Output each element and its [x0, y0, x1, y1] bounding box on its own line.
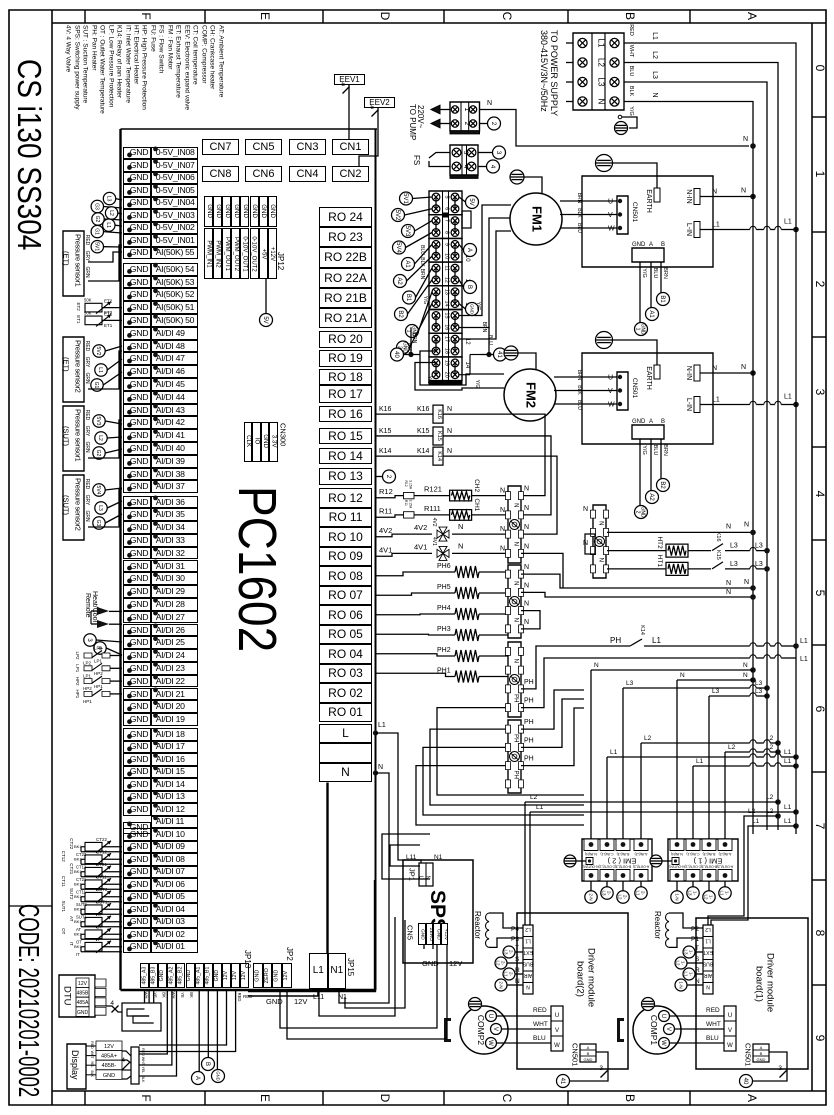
bus wires L1 L2 L3 N from power supply to right edge and down: [624, 43, 796, 834]
pin dots row 0-5V_IN05: [127, 190, 132, 195]
COMP1 earth symbol: [642, 998, 655, 1011]
fan motor FM1 circle: [510, 193, 562, 245]
pressure sensor box Pressure sensor2 SUT: [63, 475, 84, 540]
thermistor CT22: [85, 842, 102, 851]
Display mating connector box with colour labels: [131, 1047, 139, 1084]
remote input arrow: [97, 620, 109, 628]
EMI(1) output node circles 1-N 1-L3 1-L2 1-L1: [676, 881, 678, 891]
pin dots row AI/DI 05: [127, 897, 132, 902]
EMI(1) input pin N-IN(N): [670, 839, 684, 851]
pin dots row AI/DI 18: [127, 734, 132, 739]
pin dots row AI/DI 41: [127, 435, 132, 440]
pin dots row AI/DI 15: [127, 772, 132, 777]
EMI(1) output pin A-OUT(L2): [718, 870, 732, 882]
pin dots row AI/DI 09: [127, 847, 132, 852]
analog input node circles L3 G3 L2 G2 L1 G1 5V1 near 0-5V inputs: [103, 192, 115, 204]
pin dots row 0-5V_IN02: [127, 228, 132, 233]
pin dots row 0-5V_IN03: [127, 215, 132, 220]
FM2 output node circles B2 A2 GND2: [657, 479, 670, 492]
fan motor FM2 circle: [504, 369, 556, 421]
strip to FM1 motor wires: [459, 205, 511, 316]
terminal block TO PUMP: [416, 105, 424, 128]
pin dots row AI(50K) 51: [127, 307, 132, 312]
pressure sensor box Pressure sensor1 SUT: [63, 406, 84, 471]
electronic expansion valve EEV1: [334, 74, 365, 85]
heater resistor R111 (boxed): [450, 510, 472, 521]
pin dots row 0-5V_IN08: [127, 153, 132, 158]
pin dots row AI/DI 01: [127, 947, 132, 952]
wire L output of PC1602 to SPS JP1 (L11): [373, 730, 378, 735]
EMI(1) output pin B-OUT(L3): [702, 870, 716, 882]
four-way valve coil 4V1: [437, 546, 449, 560]
thermistor OT: [85, 930, 102, 939]
heater HT1 boxed resistor with K15 contact to L3 bus: [607, 568, 666, 570]
FM2 motor earth symbol: [504, 346, 518, 360]
thermistor CT21: [85, 867, 102, 876]
power supply earth pigtail: [618, 115, 622, 119]
EMI filter EMI(1) box: [668, 839, 738, 881]
relay coil box K15: [433, 427, 443, 445]
pin dots row AI/DI 47: [127, 359, 132, 364]
four-way valve coil 4V2: [437, 527, 449, 541]
pin dots row AI/DI 28: [127, 604, 132, 609]
driver board(1) CN501 connector: [753, 1044, 769, 1062]
node circles 3 and 4 (flow switch nets): [84, 634, 96, 646]
thermistor CT11: [85, 880, 102, 889]
right node circles 5V A B GND: [466, 196, 479, 209]
FM2 CN501 connector: [617, 372, 628, 410]
remote heat/cool input arrows: [84, 593, 91, 618]
Pressure sensor2 SUT node circles: [93, 484, 105, 496]
pin dots row AI/DI 13: [127, 797, 132, 802]
left node circles 5V1 5V2 5V3 5V4 A1 A2 B1 B2 GND1 GND2: [400, 192, 413, 205]
driver board(2) input node circles from EMI: [503, 946, 515, 958]
relay coil box K14: [433, 447, 443, 465]
arrows to pump: [431, 105, 440, 114]
node 40 circle and junction: [391, 348, 404, 361]
DTU mating connector box and stepped wires: [122, 1003, 161, 1031]
pan heater PH4 feed wire and resistor: [376, 613, 456, 616]
pin dots row AI/DI 32: [127, 553, 132, 558]
Pressure sensor2 ET node circles: [93, 345, 105, 357]
pin dots row AI/DI 25: [127, 643, 132, 648]
pin dots row AI(50K) 54: [127, 269, 132, 274]
connector JP13: [140, 963, 149, 988]
FM2 L-IN pin and wire to L1 bus: [694, 397, 700, 413]
electronic expansion valve EEV2: [364, 97, 395, 108]
EMI(2) input pin A-IN(L2): [634, 839, 648, 851]
load terminal strip 3 (PH2 PH1 returns + PH out): [508, 642, 521, 717]
driver board(1) reactor coil: [666, 913, 669, 947]
pin dots row AI/DI 07: [127, 872, 132, 877]
driver board(2) CN501 connector: [580, 1044, 596, 1062]
EMI(1) output pin N-OUT(N): [670, 870, 684, 882]
wire N output of PC1602 down (thick): [373, 770, 378, 775]
heater HT2 boxed resistor with K16 contact to L3 bus: [607, 550, 666, 552]
FM2 GND A B output connector: [632, 425, 664, 439]
DTU pin boxes: [95, 979, 106, 987]
pin dots row AI/DI 21: [127, 694, 132, 699]
connector JP15 L1 N1: [309, 953, 328, 989]
driver board(1) input connector strip: [703, 925, 713, 994]
pin dots row AI/DI 02: [127, 934, 132, 939]
pin dots row AI/DI 17: [127, 747, 132, 752]
pin dots row AI/DI 35: [127, 515, 132, 520]
driver board(2) reactor coil: [486, 913, 489, 947]
bus peel wires to driver module board(1) L2 L1: [775, 813, 781, 819]
pin dots row AI/DI 16: [127, 759, 132, 764]
FM1 GND A B output connector: [632, 248, 664, 262]
pin dots row AI(50K) 52: [127, 295, 132, 300]
fuse R12: [404, 492, 415, 498]
connector JP2: [253, 963, 263, 988]
pin dots row AI/DI 04: [127, 909, 132, 914]
node 41 circle and junction: [494, 348, 507, 361]
strip to FM2 motor wires: [420, 351, 504, 385]
strip2 right-side N wires to bus: [521, 574, 753, 588]
FM2 module earth symbol and wire: [596, 332, 613, 349]
JP13 485 group3 wires to A B GND nodes: [198, 989, 200, 1072]
fan driver module box FM1: [582, 176, 713, 267]
connectors CN7 CN5 CN3 CN1 CN8 CN6 CN4 CN2: [202, 139, 239, 155]
relay output column RO24..RO01 L N: [319, 207, 372, 227]
jumper box right of strip rows 6-7: [462, 211, 471, 228]
pin dots row AI/DI 39: [127, 461, 132, 466]
title strip divider line: [9, 905, 52, 907]
pin dots row 0-5V_IN06: [127, 178, 132, 183]
board input pin rows GND + signal labels: [123, 147, 151, 160]
pin dots row AI/DI 20: [127, 707, 132, 712]
HT strip top wire to N bus: [607, 531, 753, 533]
EMI(2) output pin B-OUT(L3): [616, 870, 630, 882]
pin dots row AI(50K) 53: [127, 282, 132, 287]
wire pump N to bus: [480, 110, 750, 147]
pan heater PH collector wires and K14 contact to L1 bus: [521, 646, 630, 689]
FM1 output node circles B1 A1 GND1: [657, 293, 670, 306]
node 5V circle: [260, 314, 273, 327]
pin dots row AI/DI 45: [127, 384, 132, 389]
EMI(2) output pin A-OUT(L2): [634, 870, 648, 882]
JP13 12V wires to display connector: [139, 989, 227, 1045]
nested wires around JP15: [382, 834, 430, 879]
EMI(1) output pin C-OUT(L1): [686, 870, 700, 882]
COMP2 U V W terminals and wires: [551, 1006, 563, 1051]
EMI(2) input pin B-IN(L3): [616, 839, 630, 851]
relay K16 K15 K14 N return wires to strip1: [443, 414, 545, 496]
node 4 circle: [487, 160, 500, 173]
Display module box: [70, 1050, 79, 1080]
relay coil box K16: [433, 405, 443, 423]
heater resistor R121 (boxed): [450, 490, 472, 501]
COMP1 U V W terminals and wires: [724, 1006, 736, 1051]
EMI(1) input pin B-IN(L3): [702, 839, 716, 851]
COMP2 bracket mark: [444, 1018, 451, 1042]
node 3 circle: [493, 146, 506, 159]
SPS connector CN5: [418, 923, 426, 945]
pin dots row AI/DI 11: [127, 822, 132, 827]
DTU cable with 4-conductor tick: [106, 1006, 122, 1012]
EMI(2) output node circles 2-N 2-L3 2-L2 2-L1: [590, 881, 592, 891]
pan heater PH5 feed wire and resistor: [376, 593, 456, 595]
pin dots row AI/DI 08: [127, 859, 132, 864]
pin dots row AI/DI 43: [127, 410, 132, 415]
load terminal strip 1 (CH/4V returns): [508, 486, 521, 563]
pump N junction on N bus: [750, 143, 756, 149]
EMI(1) input pin A-IN(L2): [718, 839, 732, 851]
PH strip left wrap wires: [437, 708, 584, 795]
COMP1 bracket mark: [617, 1018, 624, 1042]
pin dots row AI/DI 34: [127, 527, 132, 532]
driver module board(1) outline: [696, 918, 808, 1069]
Pressure sensor1 SUT connection elbow: [88, 420, 122, 458]
JP13 485 group2 wires to display connector: [139, 989, 167, 1054]
pin dots row AI/DI 33: [127, 540, 132, 545]
fuse R11: [404, 512, 415, 518]
EMI filter EMI(2) box: [582, 839, 652, 881]
pin dots row AI/DI 29: [127, 591, 132, 596]
driver module board(1): [765, 953, 775, 1012]
heater terminal strip HT: [593, 505, 606, 578]
pressure sensor box Pressure sensor2 ET: [63, 337, 84, 402]
pin dots row AI/DI 30: [127, 579, 132, 584]
pin dots row AI/DI 14: [127, 784, 132, 789]
EMI(1) earth symbol: [650, 855, 662, 867]
pin dots row AI/DI 27: [127, 617, 132, 622]
pin dots row AI/DI 46: [127, 371, 132, 376]
pin dots row AI(50K) 50: [127, 320, 132, 325]
pin dots row AI/DI 44: [127, 397, 132, 402]
FM2 N-IN pin and wire to N bus: [694, 365, 700, 381]
Pressure sensor2 ET connection elbow: [88, 351, 122, 389]
driver board(2) input connector strip: [523, 925, 533, 994]
wire EEV2 to CN2 with 5-conductor tick: [359, 108, 378, 166]
pan heater PH1 feed wire and resistor: [376, 673, 456, 676]
thermistor ET1: [85, 316, 102, 325]
EMI(2) input pin C-IN(L1): [600, 839, 614, 851]
pin dots row AI(50K) 55: [127, 253, 132, 258]
connector CN300: [244, 422, 253, 462]
switching power supply SPS box: [427, 890, 448, 932]
pan heater PH6 feed wire and resistor: [376, 572, 456, 576]
FM1 motor earth symbol: [510, 170, 524, 184]
legend abbreviation list: [217, 25, 224, 97]
connector JP12 pin header: [204, 196, 213, 227]
compressor COMP2 circle: [460, 1006, 508, 1054]
pin dots row AI/DI 10: [127, 834, 132, 839]
bus peel wires to EMI(1) inputs: [750, 677, 756, 683]
wire CN501 board1 to node 40: [753, 1052, 787, 1081]
thermistor AT: [85, 917, 102, 926]
pin dots row AI/DI 22: [127, 681, 132, 686]
load terminal strip 4 (PH outputs): [508, 720, 521, 793]
FM1 L-IN pin and wire to L1 bus: [694, 222, 700, 238]
pin dots row AI/DI 49: [127, 333, 132, 338]
wire JP12 +5V to node 5V: [265, 279, 267, 313]
FM1 CN501 connector: [617, 196, 628, 234]
thick power wires L11/N1 loop: [326, 783, 328, 954]
EMI(2) earth symbol: [564, 855, 576, 867]
pin dots row AI/DI 12: [127, 809, 132, 814]
thermistor ET2: [85, 303, 102, 312]
pan heater PH3 feed wire and resistor: [376, 633, 456, 636]
terminal block FS flow switch: [412, 155, 420, 165]
pin dots row AI/DI 38: [127, 474, 132, 479]
FM1 module earth symbol and wire: [596, 155, 613, 172]
node 2 circle: [488, 117, 501, 130]
power supply terminal block: [549, 30, 558, 116]
pin dots row AI/DI 23: [127, 668, 132, 673]
pressure sensor1 (ET) box: [63, 231, 84, 296]
board PC1602 outline: [119, 129, 121, 990]
pan heater PH2 feed wire and resistor: [376, 654, 456, 656]
thermistor IT: [85, 942, 102, 951]
FM1 N-IN pin and wire to N bus: [694, 189, 700, 205]
node 2 circle at RO13: [376, 476, 383, 478]
pin dots row AI/DI 37: [127, 487, 132, 492]
thermistor CT12: [85, 855, 102, 864]
bus peel wires to EMI(2) inputs: [750, 667, 756, 673]
SPS connector JP1: [408, 868, 416, 881]
wire EEV1 to CN1 with 5-conductor tick: [348, 85, 350, 139]
pin dots row 0-5V_IN04: [127, 203, 132, 208]
Display cable with 4-conductor tick: [122, 1051, 131, 1056]
node circles A B GND near display: [202, 1058, 215, 1071]
pin dots row AI/DI 40: [127, 448, 132, 453]
pin dots row 0-5V_IN01: [127, 240, 132, 245]
bus peel wires to driver module board(2) L2 L1: [775, 799, 781, 805]
pin dots row AI/DI 26: [127, 630, 132, 635]
Pressure sensor1 SUT node circles: [93, 415, 105, 427]
COMP2 earth symbol: [469, 998, 482, 1011]
pin dots row AI/DI 48: [127, 346, 132, 351]
pin dots row AI/DI 31: [127, 566, 132, 571]
EMI(2) output pin N-OUT(N): [584, 870, 598, 882]
thermistor SUT1: [85, 905, 102, 914]
flow switch FS symbol: [429, 153, 450, 159]
HT strip left jumper box: [585, 534, 595, 554]
EMI(2) input pin N-IN(N): [584, 839, 598, 851]
SPS CN5 wires to JP2: [280, 945, 437, 1028]
driver module board(2): [586, 948, 596, 1007]
fan driver module box FM2: [582, 353, 713, 444]
load terminal strip 2 (PH6..PH3 returns): [508, 565, 521, 638]
EMI(1) input pin C-IN(L1): [686, 839, 700, 851]
thermistor SUT2: [85, 892, 102, 901]
wire CN501 board2 to node 41: [570, 1052, 608, 1081]
pin dots row AI/DI 36: [127, 502, 132, 507]
pressure sensor1 (ET) elbow wires: [88, 245, 122, 281]
remote input arrow: [97, 607, 109, 615]
driver board(1) input node circles from EMI: [683, 946, 695, 958]
EMI(2) output pin C-OUT(L1): [600, 870, 614, 882]
compressor COMP1 circle: [633, 1006, 681, 1054]
pin dots row AI/DI 42: [127, 423, 132, 428]
Pressure sensor2 SUT connection elbow: [88, 489, 122, 527]
pin dots row AI/DI 19: [127, 719, 132, 724]
driver module board(2) outline: [517, 913, 628, 1069]
pin dots row AI/DI 06: [127, 884, 132, 889]
pin dots row AI/DI 03: [127, 922, 132, 927]
DTU module box: [62, 986, 72, 1006]
pin dots row AI/DI 24: [127, 655, 132, 660]
pin dots row 0-5V_IN07: [127, 165, 132, 170]
